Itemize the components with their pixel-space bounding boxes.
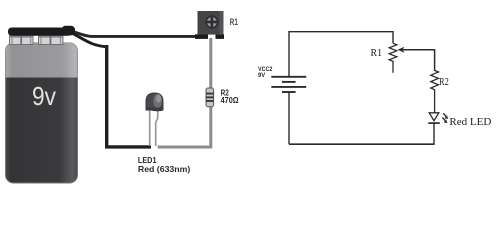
svg-text:R1: R1 <box>230 17 238 28</box>
svg-text:470Ω: 470Ω <box>221 95 239 105</box>
svg-text:Red (633nm): Red (633nm) <box>138 164 191 174</box>
svg-text:9V: 9V <box>258 72 266 79</box>
svg-text:9v: 9v <box>32 81 56 111</box>
svg-text:Red LED: Red LED <box>449 116 491 128</box>
svg-text:R1: R1 <box>371 47 383 59</box>
svg-text:R2: R2 <box>439 76 449 88</box>
